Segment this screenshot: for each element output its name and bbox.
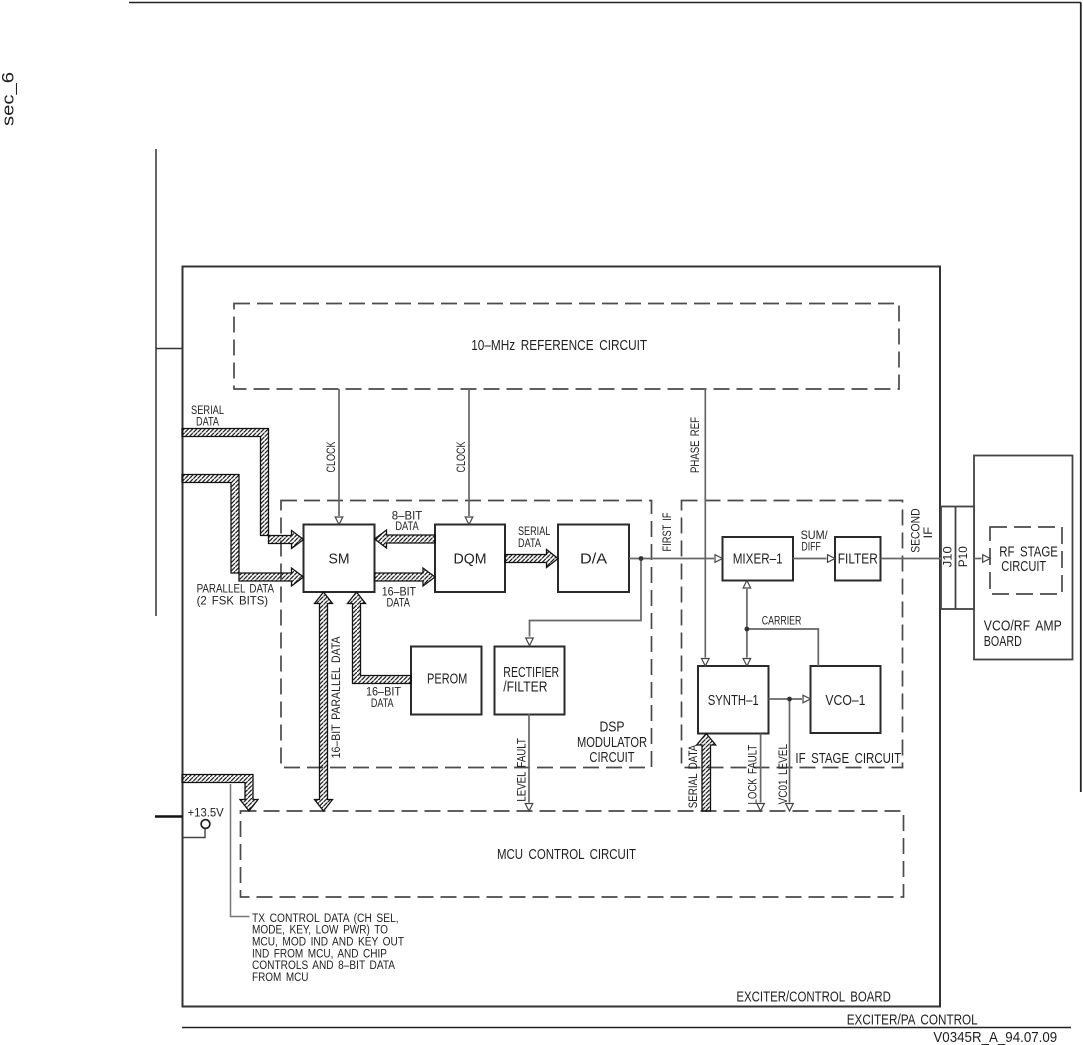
svg-text:/FILTER: /FILTER (503, 678, 547, 695)
arrowhead FIRST IF (715, 555, 723, 563)
svg-text:CONTROLS AND 8–BIT DATA: CONTROLS AND 8–BIT DATA (252, 960, 395, 972)
block MIXER-1 (723, 537, 794, 581)
junction node VCO1 level (787, 697, 792, 702)
wire CARRIER (747, 629, 818, 666)
bus 16-BIT PARALLEL DATA (315, 592, 333, 811)
wire SECOND IF (881, 558, 942, 560)
DSP MODULATOR CIRCUIT dashed box (281, 501, 652, 768)
page top border line (129, 2, 1081, 4)
bus SERIAL DATA input (182, 429, 304, 549)
bus SERIAL DATA to SYNTH-1 (697, 734, 716, 812)
svg-text:P10: P10 (956, 546, 970, 567)
arrowhead MIXER-1 up (743, 581, 751, 589)
wire SUM/DIFF (793, 558, 827, 560)
arrowhead VC01 LEVEL (786, 804, 794, 812)
svg-text:CIRCUIT: CIRCUIT (1001, 558, 1046, 575)
wire CLOCK to DQM (468, 389, 470, 516)
wire P10 to RF STAGE (974, 558, 982, 560)
block D/A (558, 525, 629, 593)
svg-text:MCU CONTROL CIRCUIT: MCU CONTROL CIRCUIT (497, 846, 636, 863)
arrowhead LEVEL FAULT (525, 804, 533, 812)
svg-text:IND FROM MCU, AND CHIP: IND FROM MCU, AND CHIP (252, 948, 387, 960)
svg-text:PHASE REF: PHASE REF (688, 417, 702, 473)
svg-text:TX CONTROL DATA (CH SEL,: TX CONTROL DATA (CH SEL, (252, 913, 399, 925)
block DQM (435, 525, 505, 593)
note TX CONTROL DATA (252, 913, 404, 984)
svg-text:FILTER: FILTER (838, 551, 878, 568)
svg-text:sec_6: sec_6 (0, 72, 17, 126)
arrowhead into VCO-1 (803, 695, 811, 703)
svg-text:DQM: DQM (454, 551, 487, 568)
arrowhead into RECTIFIER/FILTER (526, 638, 534, 646)
bus 8-BIT DATA DQM to SM (375, 530, 436, 548)
svg-text:CARRIER: CARRIER (762, 614, 802, 628)
svg-text:IF STAGE CIRCUIT: IF STAGE CIRCUIT (795, 750, 901, 767)
block SM (304, 525, 375, 593)
wire LEVEL FAULT (528, 714, 530, 803)
caption underline (182, 1027, 1071, 1029)
wire LOCK FAULT (760, 734, 762, 803)
page right border line (1080, 3, 1082, 793)
wire CLOCK to SM (338, 389, 340, 516)
wire FIRST IF (629, 558, 714, 560)
svg-text:VCO/RF AMP: VCO/RF AMP (984, 617, 1062, 634)
arrowhead PHASE REF (702, 659, 710, 667)
svg-text:FIRST IF: FIRST IF (660, 513, 674, 552)
svg-text:16–BIT PARALLEL DATA: 16–BIT PARALLEL DATA (329, 636, 343, 758)
svg-text:DATA: DATA (371, 696, 394, 710)
svg-text:DATA: DATA (196, 415, 219, 429)
wire SYNTH-1 to VCO-1 (769, 698, 803, 700)
arrowhead CLOCK SM (335, 517, 343, 525)
svg-text:SERIAL DATA: SERIAL DATA (686, 745, 700, 809)
wire PHASE REF (704, 389, 706, 658)
10-MHz REFERENCE CIRCUIT dashed box (234, 304, 899, 390)
svg-text:CLOCK: CLOCK (324, 442, 338, 473)
svg-text:CIRCUIT: CIRCUIT (589, 749, 634, 766)
svg-text:EXCITER/CONTROL BOARD: EXCITER/CONTROL BOARD (736, 989, 891, 1006)
open arrowheads on thin wires (335, 517, 990, 811)
svg-text:IF: IF (921, 527, 935, 539)
RF STAGE CIRCUIT dashed box (990, 527, 1062, 594)
block SYNTH-1 (698, 666, 769, 734)
svg-text:DSP: DSP (600, 719, 625, 736)
wire VC01 LEVEL (789, 699, 791, 803)
junction node D/A output (639, 556, 644, 561)
block VCO-1 (811, 666, 881, 733)
svg-text:10–MHz REFERENCE CIRCUIT: 10–MHz REFERENCE CIRCUIT (471, 337, 647, 354)
svg-text:DATA: DATA (395, 519, 418, 533)
svg-text:V0345R_A_94.07.09: V0345R_A_94.07.09 (933, 1029, 1057, 1045)
VCO/RF AMP BOARD outline (974, 456, 1073, 660)
bus PARALLEL DATA input (182, 475, 304, 587)
svg-text:MCU, MOD IND AND KEY OUT: MCU, MOD IND AND KEY OUT (252, 937, 404, 949)
svg-text:+13.5V: +13.5V (188, 805, 224, 819)
svg-text:LEVEL FAULT: LEVEL FAULT (515, 738, 529, 802)
MCU CONTROL CIRCUIT dashed box (241, 811, 904, 897)
svg-text:DATA: DATA (518, 536, 541, 550)
svg-text:PEROM: PEROM (427, 671, 467, 688)
leader line TX CONTROL DATA (231, 784, 250, 917)
arrowhead CLOCK DQM (465, 517, 473, 525)
arrowhead LOCK FAULT (757, 804, 765, 812)
arrowhead into RF STAGE (983, 555, 991, 563)
wire tick into board (156, 348, 183, 350)
svg-text:(2 FSK BITS): (2 FSK BITS) (197, 593, 269, 607)
bus PEROM to SM (348, 592, 412, 684)
terminal +13.5V (201, 820, 210, 829)
svg-text:VC01 LEVEL: VC01 LEVEL (776, 744, 790, 805)
arrowhead SYNTH-1 down (743, 659, 751, 667)
bus 16-BIT DATA SM to DQM (375, 568, 436, 586)
svg-text:EXCITER/PA CONTROL: EXCITER/PA CONTROL (847, 1012, 978, 1029)
svg-text:MODE, KEY, LOW PWR) TO: MODE, KEY, LOW PWR) TO (252, 925, 388, 937)
svg-text:MIXER–1: MIXER–1 (733, 551, 783, 568)
wire MIXER-1 to SYNTH-1 (746, 589, 748, 658)
block PEROM (411, 647, 482, 715)
svg-text:J10: J10 (941, 546, 955, 567)
svg-text:SYNTH–1: SYNTH–1 (708, 692, 759, 709)
svg-text:SM: SM (329, 551, 350, 568)
svg-text:LOCK FAULT: LOCK FAULT (746, 744, 760, 804)
IF STAGE CIRCUIT dashed box (682, 501, 903, 768)
svg-text:CLOCK: CLOCK (454, 442, 468, 473)
bus TX control data to MCU (182, 775, 258, 812)
wire D/A to RECTIFIER/FILTER (530, 559, 642, 637)
block RECTIFIER/FILTER (495, 647, 565, 715)
svg-text:DATA: DATA (386, 595, 410, 609)
left bus stub vertical line (155, 149, 157, 616)
bus SERIAL DATA DQM to D/A (505, 550, 558, 568)
svg-text:DIFF: DIFF (801, 539, 820, 553)
EXCITER/CONTROL BOARD outline (183, 267, 941, 1007)
block FILTER (835, 537, 881, 581)
svg-text:VCO–1: VCO–1 (825, 692, 865, 709)
svg-text:BOARD: BOARD (984, 633, 1022, 650)
svg-text:D/A: D/A (580, 551, 607, 568)
connector J10/P10 (941, 507, 974, 610)
arrowhead SUM/DIFF (828, 555, 836, 563)
junction node carrier (745, 627, 750, 632)
svg-text:FROM MCU: FROM MCU (252, 972, 309, 984)
wire +13.5V supply (183, 829, 205, 838)
